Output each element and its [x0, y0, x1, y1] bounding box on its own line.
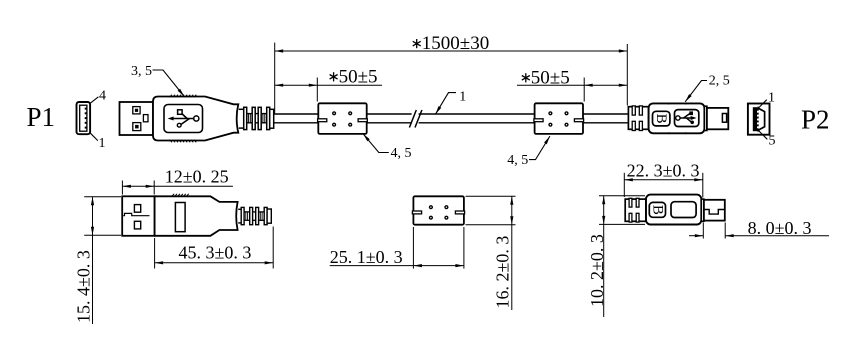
svg-text:P1: P1	[27, 102, 56, 132]
svg-text:50±5: 50±5	[531, 68, 570, 89]
svg-text:16. 2±0. 3: 16. 2±0. 3	[493, 236, 513, 309]
svg-text:50±5: 50±5	[339, 67, 378, 88]
svg-text:4, 5: 4, 5	[391, 146, 412, 161]
svg-text:4, 5: 4, 5	[507, 153, 528, 168]
svg-text:2, 5: 2, 5	[709, 74, 730, 89]
svg-text:B: B	[649, 205, 665, 215]
svg-text:P2: P2	[801, 105, 830, 135]
svg-text:22. 3±0. 3: 22. 3±0. 3	[627, 160, 700, 180]
svg-text:1500±30: 1500±30	[422, 33, 489, 54]
svg-text:10. 2±0. 3: 10. 2±0. 3	[587, 234, 607, 307]
svg-text:1: 1	[99, 136, 106, 151]
svg-text:45. 3±0. 3: 45. 3±0. 3	[179, 242, 252, 262]
svg-text:1: 1	[768, 90, 775, 105]
svg-text:12±0. 25: 12±0. 25	[165, 166, 229, 186]
svg-text:5: 5	[769, 134, 776, 149]
svg-text:25. 1±0. 3: 25. 1±0. 3	[330, 247, 403, 267]
svg-text:4: 4	[99, 89, 106, 104]
svg-text:8. 0±0. 3: 8. 0±0. 3	[748, 218, 812, 238]
svg-text:B: B	[653, 114, 669, 124]
svg-text:1: 1	[459, 90, 466, 105]
svg-text:15. 4±0. 3: 15. 4±0. 3	[73, 250, 93, 323]
svg-text:3, 5: 3, 5	[131, 64, 152, 79]
